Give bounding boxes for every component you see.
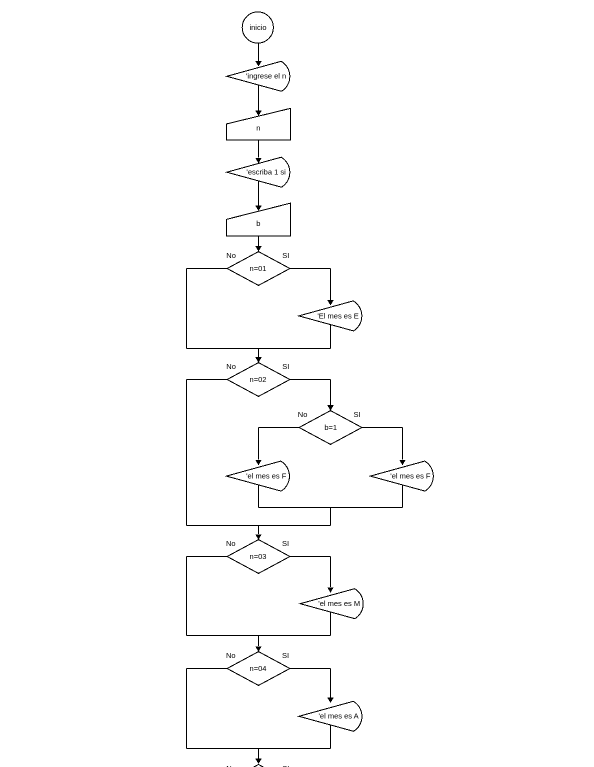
wire No branch b=1 down <box>258 428 260 460</box>
wire bottom block4 <box>187 748 331 750</box>
manual input box b <box>226 203 290 236</box>
wire left display F exit <box>258 485 260 508</box>
wire SI branch b=1 horizontal <box>362 427 403 429</box>
display "El mes es E" <box>299 301 362 331</box>
svg-text:'el mes es F: 'el mes es F <box>390 472 431 481</box>
svg-text:n=01: n=01 <box>250 264 267 273</box>
svg-text:No: No <box>226 251 236 260</box>
right display "el mes es F" <box>370 461 433 491</box>
svg-text:SI: SI <box>282 251 289 260</box>
wire No branch n=01 left rail <box>186 269 188 349</box>
svg-text:SI: SI <box>354 410 361 419</box>
wire block1 to decision n=02 <box>258 349 260 358</box>
display "escriba 1 si" <box>227 157 290 187</box>
wire circle to display1 <box>258 43 260 61</box>
arrowhead into decision n=05 <box>255 759 261 764</box>
svg-text:b=1: b=1 <box>324 423 337 432</box>
svg-text:SI: SI <box>282 539 289 548</box>
wire display2 to input b <box>258 181 260 206</box>
wire bottom block3 <box>187 635 331 637</box>
wire SI branch b=1 down <box>402 428 404 460</box>
wire inner bottom drop <box>330 508 332 526</box>
wire inner bottom block2 <box>259 507 403 509</box>
wire SI branch n=02 down <box>330 380 332 406</box>
wire SI branch n=03 horizontal <box>290 556 331 558</box>
wire block4 to decision n=05 <box>258 749 260 759</box>
wire display A exit <box>330 725 332 748</box>
wire block3 to decision n=04 <box>258 636 260 647</box>
arrowhead into decision b=1 <box>327 405 333 410</box>
svg-text:'escriba 1 si: 'escriba 1 si <box>246 168 286 177</box>
arrowhead into display1 <box>255 61 261 66</box>
display "el mes es M" <box>300 589 363 619</box>
wire No branch n=02 left rail <box>186 380 188 526</box>
arrowhead into input n <box>255 111 261 116</box>
svg-text:inicio: inicio <box>249 23 266 32</box>
svg-text:n=02: n=02 <box>250 375 267 384</box>
svg-text:SI: SI <box>282 362 289 371</box>
svg-text:No: No <box>226 362 236 371</box>
arrowhead into left display "el mes es F" <box>255 460 261 465</box>
svg-text:No: No <box>226 539 236 548</box>
wire display M exit <box>330 612 332 635</box>
arrowhead into decision n=01 <box>255 246 261 251</box>
svg-text:n=04: n=04 <box>250 664 267 673</box>
wire input n to display2 <box>258 140 260 158</box>
wire No branch n=03 horizontal <box>187 556 228 558</box>
wire No branch n=02 horizontal <box>187 379 228 381</box>
wire No branch n=04 left rail <box>186 669 188 749</box>
wire SI branch n=02 horizontal <box>290 379 331 381</box>
svg-text:'el mes es F: 'el mes es F <box>246 472 287 481</box>
svg-text:n: n <box>256 123 260 132</box>
svg-text:SI: SI <box>282 651 289 660</box>
wire SI branch n=04 horizontal <box>290 668 331 670</box>
wire No branch b=1 horizontal <box>259 427 300 429</box>
decision diamond n=01 <box>227 252 290 286</box>
svg-text:'el mes es M: 'el mes es M <box>318 599 360 608</box>
arrowhead into display "El mes es E" <box>327 300 333 305</box>
svg-text:b: b <box>256 219 260 228</box>
decision diamond n=04 <box>227 652 290 686</box>
decision diamond n=02 <box>227 363 290 397</box>
start circle "inicio" <box>242 12 273 43</box>
display "ingrese el n" <box>227 61 290 91</box>
wire No branch n=03 left rail <box>186 557 188 636</box>
wire display E exit <box>330 325 332 349</box>
wire No branch n=04 horizontal <box>187 668 228 670</box>
wire bottom block1 <box>187 348 331 350</box>
arrowhead into display2 <box>255 158 261 163</box>
svg-text:'el mes es A: 'el mes es A <box>318 712 358 721</box>
arrowhead into display "el mes es A" <box>327 698 333 703</box>
arrowhead into display "el mes es M" <box>327 587 333 592</box>
svg-text:'ingrese el n: 'ingrese el n <box>246 72 286 81</box>
svg-text:'El mes es E: 'El mes es E <box>317 311 358 320</box>
wire SI branch n=01 down <box>330 269 332 301</box>
wire SI branch n=03 down <box>330 557 332 588</box>
svg-text:No: No <box>226 651 236 660</box>
arrowhead into decision n=03 <box>255 534 261 539</box>
decision diamond b=1 <box>299 411 362 445</box>
decision diamond n=05 (clipped at bottom) <box>227 765 290 767</box>
arrowhead into input b <box>255 206 261 211</box>
arrowhead into decision n=04 <box>255 646 261 651</box>
wire outer bottom block2 <box>187 525 331 527</box>
display "el mes es A" <box>299 701 362 731</box>
manual input box n <box>226 108 290 140</box>
wire display1 to input n <box>258 85 260 110</box>
svg-text:No: No <box>298 410 308 419</box>
wire SI branch n=04 down <box>330 669 332 698</box>
wire right display F exit <box>402 485 404 508</box>
wire SI branch n=01 horizontal <box>290 268 331 270</box>
svg-text:n=03: n=03 <box>250 552 267 561</box>
decision diamond n=03 <box>227 540 290 574</box>
wire No branch n=01 horizontal <box>187 268 228 270</box>
arrowhead into right display "el mes es F" <box>399 460 405 465</box>
wire input b to decision n=01 <box>258 236 260 246</box>
arrowhead into decision n=02 <box>255 357 261 362</box>
wire block2 to decision n=03 <box>258 526 260 535</box>
left display "el mes es F" <box>226 461 289 491</box>
